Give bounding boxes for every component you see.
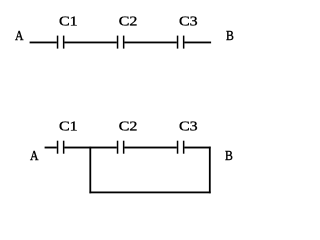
wire C2 to C3 (bottom circuit) bbox=[124, 147, 176, 149]
capacitor C1 label bbox=[59, 15, 78, 29]
capacitor C3 (top circuit) bbox=[177, 36, 185, 49]
node B bbox=[225, 150, 233, 164]
capacitor C3 label bbox=[179, 120, 198, 134]
capacitor C2 (top circuit) bbox=[117, 36, 125, 49]
node B bbox=[226, 30, 234, 44]
wire C1 to C2 (top circuit) bbox=[64, 42, 116, 44]
capacitor C1 label bbox=[59, 120, 78, 134]
capacitor C1 (bottom circuit) bbox=[57, 141, 65, 154]
wire A to C1 (top circuit) bbox=[30, 42, 57, 44]
wire C3 to B (top circuit) bbox=[184, 42, 211, 44]
capacitor C2 (bottom circuit) bbox=[117, 141, 125, 154]
node A bbox=[30, 150, 39, 164]
node A bbox=[15, 30, 24, 44]
capacitor C3 (bottom circuit) bbox=[177, 141, 185, 154]
wire bottom rail bbox=[89, 192, 210, 194]
wire C3 to corner (bottom circuit) bbox=[184, 147, 210, 149]
wire A to C1 (bottom circuit) bbox=[45, 147, 57, 149]
capacitor C1 (top circuit) bbox=[57, 36, 65, 49]
capacitor C2 label bbox=[119, 120, 138, 134]
wire C1 to C2 (bottom circuit) bbox=[64, 147, 116, 149]
capacitor C3 label bbox=[179, 15, 198, 29]
wire C2 to C3 (top circuit) bbox=[124, 42, 176, 44]
wire junction vertical drop bbox=[89, 147, 91, 194]
wire right vertical drop bbox=[209, 147, 211, 194]
capacitor C2 label bbox=[119, 15, 138, 29]
